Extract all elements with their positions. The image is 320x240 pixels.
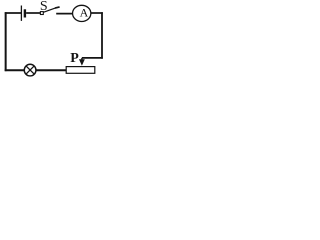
wire lamp to bottom-left corner [5,69,24,71]
wire corner to slider arrow [82,57,103,59]
rheostat body [66,67,95,74]
ammeter U1 [73,5,91,21]
wire switch to ammeter [56,13,72,15]
wire top-left to battery [5,12,21,14]
wire battery to switch [26,12,40,14]
svg-text:A: A [80,6,89,20]
lamp [24,64,36,76]
switch S [40,7,59,15]
wire right vertical [101,12,103,59]
rheostat slider arrow [79,58,85,66]
svg-text:S: S [40,0,48,14]
wire left vertical [5,12,7,71]
label P [70,51,79,66]
label S [40,0,48,14]
wire rheostat to lamp [36,69,66,71]
battery [21,6,25,21]
wire ammeter to top-right corner [91,12,103,14]
svg-text:P: P [70,51,79,66]
